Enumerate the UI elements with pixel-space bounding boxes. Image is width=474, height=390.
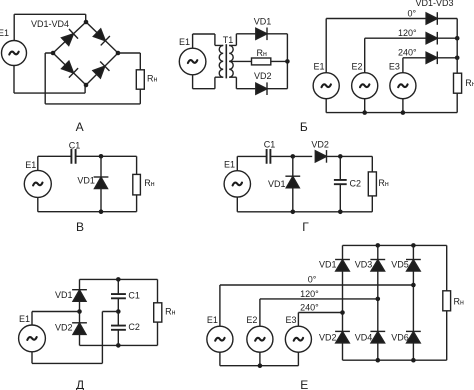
capacitor C1 (circuit D) xyxy=(117,279,119,311)
node: bottom rail at E2 xyxy=(362,110,367,115)
svg-text:Г: Г xyxy=(302,220,309,234)
AC source E1 xyxy=(2,41,27,66)
wire: phase 240 from E3 to leg 1 xyxy=(298,312,342,314)
svg-text:VD1-VD3: VD1-VD3 xyxy=(416,0,454,8)
diode VD1 xyxy=(256,28,267,41)
wire: C1 to VD2 xyxy=(270,155,312,157)
resistor Rn (three-phase bridge load) xyxy=(443,291,451,311)
node: C2 top node xyxy=(338,154,343,159)
svg-text:E1: E1 xyxy=(314,62,325,72)
transformer T1 secondary winding xyxy=(229,45,233,77)
wire: leg 1 middle xyxy=(342,271,344,332)
resistor Rn (circuit D load) xyxy=(154,303,162,322)
svg-text:E1: E1 xyxy=(25,160,36,170)
svg-text:VD1: VD1 xyxy=(268,179,286,189)
wire: E3 riser xyxy=(297,313,299,327)
wire: E1 bottom to bridge bottom xyxy=(14,66,85,94)
AC source E1 (circuit G) xyxy=(224,171,250,197)
wire: bottom rail xyxy=(237,197,372,212)
node: VD1 bottom node xyxy=(291,210,296,215)
node: neutral at E2 xyxy=(258,363,263,368)
capacitor C1 xyxy=(71,149,75,164)
wire: phase 120 from E2 to diode xyxy=(365,38,426,72)
wire: E1 top to C1 xyxy=(38,156,72,170)
node: C2 bottom node xyxy=(338,210,343,215)
wire: VD1 bottom stem xyxy=(292,188,294,212)
AC source E3 (three-phase) xyxy=(390,73,416,99)
wire: top rail E1 to bridge top xyxy=(14,14,86,40)
diode VD2 (phase 120) xyxy=(426,32,437,45)
svg-text:C2: C2 xyxy=(128,322,140,332)
svg-text:120°: 120° xyxy=(398,28,417,38)
wire: bottom rail xyxy=(80,344,158,346)
svg-text:0°: 0° xyxy=(408,8,417,18)
diode VD6 (leg 3 bottom, pointing up) xyxy=(406,331,421,343)
wire: bridge diamond edges xyxy=(53,22,118,85)
wire: junction to E1 top xyxy=(32,312,80,326)
node: rail at phase 120 xyxy=(455,36,460,41)
wire: leg 2 middle xyxy=(377,271,379,332)
diode VD1 (shunt, pointing up) xyxy=(292,156,294,176)
svg-text:Е: Е xyxy=(300,378,308,390)
AC source E1 (three-phase) xyxy=(313,73,339,99)
diode VD4 (leg 2 bottom, pointing up) xyxy=(370,331,385,343)
svg-text:Rн: Rн xyxy=(165,307,176,317)
resistor Rn (circuit V load) xyxy=(133,174,141,195)
wire: VD2 to right rail xyxy=(327,155,373,157)
svg-text:Rн: Rн xyxy=(465,78,474,88)
diode VD1 (pointing up) xyxy=(79,279,81,289)
wire: right rail to Rn xyxy=(136,156,138,174)
wire: VD2 to right rail xyxy=(437,37,457,39)
node: phase 240 at leg 1 xyxy=(340,310,345,315)
svg-text:Rн: Rн xyxy=(144,178,155,188)
svg-text:240°: 240° xyxy=(398,48,417,58)
AC source E2 (three-phase bridge) xyxy=(247,326,273,352)
node: bridge top xyxy=(84,20,89,25)
node: phase 0 at leg 3 xyxy=(411,283,416,288)
wire: E1 top to C1 xyxy=(237,156,266,170)
node: bottom rail at C2 xyxy=(116,343,121,348)
resistor Rn (circuit G load) xyxy=(368,172,376,196)
svg-text:0°: 0° xyxy=(308,275,317,285)
diode VD1 (bridge top-left) xyxy=(61,29,78,46)
node: bridge bottom xyxy=(84,83,89,88)
wire: Rn bottom to bottom rail xyxy=(371,196,373,212)
wire: VD2 to right rail xyxy=(267,88,287,90)
svg-text:E1: E1 xyxy=(0,28,9,38)
svg-text:120°: 120° xyxy=(300,289,319,299)
node: VD1/VD2 junction xyxy=(77,309,82,314)
wire: Rn bottom to bottom rail xyxy=(157,322,159,345)
diode VD1 (phase 0) xyxy=(426,12,437,25)
svg-text:VD2: VD2 xyxy=(254,71,272,81)
diode VD3 (bridge bottom-left) xyxy=(61,60,78,77)
wire: E1 bottom to primary xyxy=(193,75,224,89)
transformer T1 primary winding xyxy=(219,45,223,77)
wire: top rail xyxy=(80,278,158,280)
node: bridge left xyxy=(51,51,56,56)
diode VD1 (shunt, pointing up) xyxy=(100,156,102,177)
wire: VD1 bottom stem xyxy=(100,189,102,212)
wire: Rn to right rail xyxy=(271,60,288,62)
wire: phase 0 from E1 to leg 3 xyxy=(220,284,414,286)
wire: E1 top to primary xyxy=(193,34,224,48)
capacitor C2 (circuit D) xyxy=(117,312,119,346)
node: C1/C2 junction xyxy=(116,309,121,314)
node: right rail centre tap junction xyxy=(285,59,290,64)
svg-text:E1: E1 xyxy=(224,160,235,170)
wire: Rn bottom to bottom rail xyxy=(446,311,448,360)
wire: secondary top to VD1 xyxy=(229,34,255,46)
diode VD3 (phase 240) xyxy=(426,52,437,65)
node: top rail at leg 3 xyxy=(411,243,416,248)
svg-text:E2: E2 xyxy=(246,315,257,325)
diode VD4 (bridge bottom-right) xyxy=(92,62,109,79)
svg-text:VD1: VD1 xyxy=(319,259,337,269)
wire: phase 240 from E3 to diode xyxy=(403,58,426,73)
node: bridge right xyxy=(116,51,121,56)
svg-text:Rн: Rн xyxy=(454,296,465,306)
svg-text:VD1-VD4: VD1-VD4 xyxy=(31,19,69,29)
node: bottom rail at leg 3 xyxy=(411,358,416,363)
resistor Rn (load, circuit A) xyxy=(136,70,144,89)
wire: neutral rail joining source bottoms xyxy=(220,352,299,365)
diode VD3 (leg 2 top, pointing up) xyxy=(377,245,379,259)
wire: C1 to load rail xyxy=(76,155,137,157)
wire: E2 riser xyxy=(259,299,261,326)
AC source E3 (three-phase bridge) xyxy=(285,326,311,352)
wire: right rail to Rn xyxy=(456,19,458,74)
wire: bridge right node to load top xyxy=(118,53,140,70)
wire: right rail to Rn xyxy=(157,279,159,302)
wire: E1 riser xyxy=(219,285,221,326)
AC source E2 (three-phase) xyxy=(352,73,378,99)
svg-text:В: В xyxy=(76,220,84,234)
svg-text:E1: E1 xyxy=(207,315,218,325)
wire: VD1 bottom stem xyxy=(79,301,81,311)
wire: right rail xyxy=(286,34,288,89)
diode VD2 (pointing up) xyxy=(79,312,81,323)
svg-text:Д: Д xyxy=(76,378,84,390)
svg-text:E3: E3 xyxy=(389,62,400,72)
svg-text:E1: E1 xyxy=(19,314,30,324)
wire: phase 120 from E2 to leg 2 xyxy=(260,298,378,300)
svg-text:Rн: Rн xyxy=(378,178,389,188)
svg-text:VD4: VD4 xyxy=(355,332,373,342)
wire: bottom rail xyxy=(326,99,457,113)
svg-text:VD2: VD2 xyxy=(55,322,73,332)
diode VD5 (leg 3 top, pointing up) xyxy=(412,245,414,259)
diode VD2 (bridge top-right) xyxy=(92,28,109,45)
AC source E1 (circuit V) xyxy=(24,170,51,197)
wire: secondary bottom to VD2 xyxy=(229,77,255,89)
transformer T1 core xyxy=(225,44,227,78)
svg-text:VD6: VD6 xyxy=(391,332,409,342)
wire: bottom rail xyxy=(38,197,137,211)
svg-text:E2: E2 xyxy=(352,62,363,72)
AC source E1 (three-phase bridge) xyxy=(207,326,233,352)
svg-text:VD2: VD2 xyxy=(319,332,337,342)
wire: VD1 to right rail xyxy=(437,18,457,20)
wire: bridge left node to load bottom xyxy=(45,53,140,104)
node: bottom rail at E3 xyxy=(401,110,406,115)
svg-text:VD5: VD5 xyxy=(391,259,409,269)
wire: E1 bottom to C1/C2 junction riser xyxy=(32,312,118,364)
diode VD2 (leg 1 bottom, pointing up) xyxy=(335,331,350,343)
resistor Rn (horizontal) xyxy=(252,58,271,65)
AC source E1 (circuit D) xyxy=(19,325,46,352)
node: VD1 top node xyxy=(291,154,296,159)
capacitor C2 (shunt) xyxy=(339,156,341,211)
svg-text:VD1: VD1 xyxy=(254,16,272,26)
svg-text:VD1: VD1 xyxy=(55,290,73,300)
wire: top rail xyxy=(343,244,447,246)
wire: right rail to Rn xyxy=(446,245,448,290)
node: top rail at C1 xyxy=(116,277,121,282)
svg-text:C2: C2 xyxy=(350,178,362,188)
svg-text:Б: Б xyxy=(300,120,308,134)
svg-text:VD2: VD2 xyxy=(311,140,329,150)
node: bottom rail at leg 2 xyxy=(376,358,381,363)
node: top rail at leg 2 xyxy=(376,243,381,248)
svg-text:VD3: VD3 xyxy=(355,259,373,269)
wire: bottom rail xyxy=(343,359,447,361)
node: top node of VD1 xyxy=(99,154,104,159)
AC source E1 (transformer circuit) xyxy=(179,48,206,75)
svg-text:E1: E1 xyxy=(179,37,190,47)
node: phase 120 at leg 2 xyxy=(376,297,381,302)
wire: phase 0 from E1 to diode xyxy=(326,19,425,73)
node: rail at phase 240 xyxy=(455,56,460,61)
svg-text:Rн: Rн xyxy=(257,48,268,58)
svg-text:240°: 240° xyxy=(300,302,319,312)
diode VD2 (series, pointing right) xyxy=(315,150,326,163)
wire: leg 3 middle xyxy=(412,271,414,332)
svg-text:VD1: VD1 xyxy=(77,176,95,186)
capacitor C1 xyxy=(267,149,271,164)
resistor Rn (three-phase half-wave load) xyxy=(454,73,462,93)
wire: VD3 to right rail xyxy=(437,57,457,59)
svg-text:C1: C1 xyxy=(128,290,140,300)
diode VD1 (leg 1 top, pointing up) xyxy=(342,245,344,259)
wire: Rn bottom to bottom rail xyxy=(456,93,458,112)
svg-text:C1: C1 xyxy=(69,140,81,150)
wire: centre tap to Rn xyxy=(229,60,251,62)
node: bottom node of VD1 xyxy=(99,209,104,214)
wire: VD2 bottom stem xyxy=(79,334,81,345)
svg-text:Rн: Rн xyxy=(147,74,158,84)
diode VD2 xyxy=(256,82,267,95)
wire: right rail to Rn xyxy=(371,156,373,172)
svg-text:C1: C1 xyxy=(264,140,276,150)
svg-text:E3: E3 xyxy=(286,315,297,325)
svg-text:А: А xyxy=(76,120,84,134)
wire: VD1 to right rail xyxy=(267,33,287,35)
wire: Rn bottom to bottom rail xyxy=(136,195,138,212)
svg-text:T1: T1 xyxy=(223,35,234,45)
